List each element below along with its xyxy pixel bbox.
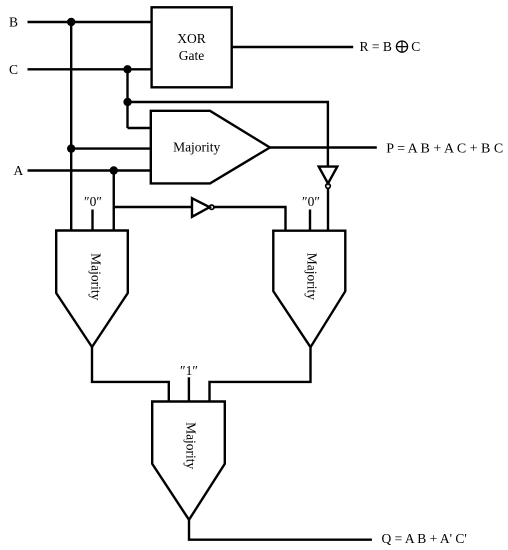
junction C branch bbox=[123, 98, 131, 106]
majority gate U4 (right) bbox=[273, 231, 345, 348]
svg-text:C: C bbox=[9, 62, 18, 77]
svg-text:C: C bbox=[411, 39, 420, 54]
svg-text:″0″: ″0″ bbox=[84, 194, 102, 209]
output label R = B xor C bbox=[360, 39, 421, 54]
junction A input bbox=[110, 166, 118, 174]
wire C to inverter (top right) bbox=[128, 102, 328, 167]
wire U4 output to U5 bbox=[210, 347, 311, 401]
wire C' to majority U4 bbox=[327, 189, 329, 231]
svg-text:Majority: Majority bbox=[173, 139, 220, 154]
wire A branch vertical bbox=[113, 171, 115, 231]
svg-text:A: A bbox=[14, 163, 24, 178]
junction B branch bbox=[67, 144, 75, 152]
svg-text:Majority: Majority bbox=[183, 422, 198, 469]
wire B to majority U2 bbox=[71, 147, 151, 149]
svg-text:Majority: Majority bbox=[89, 253, 104, 300]
svg-text:P = A B + A C + B C: P = A B + A C + B C bbox=[386, 142, 503, 157]
wire 1 stub bbox=[188, 377, 190, 401]
svg-text:XOR: XOR bbox=[177, 31, 206, 46]
svg-text:Q = A B + A' C': Q = A B + A' C' bbox=[382, 531, 467, 546]
majority gate U5 (bottom) bbox=[152, 402, 225, 520]
XOR gate U1 bbox=[152, 7, 232, 87]
wire 0 stub left bbox=[91, 210, 93, 231]
wire A' to majority U4 bbox=[214, 207, 286, 231]
svg-text:R = B: R = B bbox=[360, 39, 392, 54]
wire R output bbox=[232, 46, 354, 48]
wire A input bbox=[28, 169, 151, 171]
svg-text:″0″: ″0″ bbox=[302, 194, 320, 209]
wire Q output bbox=[189, 520, 372, 540]
junction B input bbox=[67, 18, 75, 26]
wire B branch vertical bbox=[70, 22, 72, 231]
svg-text:″1″: ″1″ bbox=[180, 363, 198, 378]
inverter U6 (makes C') bbox=[319, 167, 338, 189]
junction C input bbox=[123, 65, 131, 73]
majority gate U3 (left) bbox=[56, 231, 128, 348]
wire C to majority U2 bbox=[128, 127, 151, 129]
inverter U7 (makes A') bbox=[192, 198, 214, 217]
wire U3 output to U5 bbox=[92, 347, 169, 402]
majority gate U2 bbox=[151, 111, 270, 184]
svg-text:Majority: Majority bbox=[305, 253, 320, 300]
wire B input bbox=[28, 21, 152, 23]
wire C input bbox=[28, 68, 152, 70]
svg-text:Gate: Gate bbox=[179, 48, 204, 63]
wire A to inverter U7 bbox=[114, 206, 192, 208]
wire 0 stub right bbox=[309, 210, 311, 231]
svg-text:B: B bbox=[9, 15, 18, 30]
wire P output bbox=[270, 146, 377, 148]
wire C branch vertical bbox=[126, 69, 128, 128]
